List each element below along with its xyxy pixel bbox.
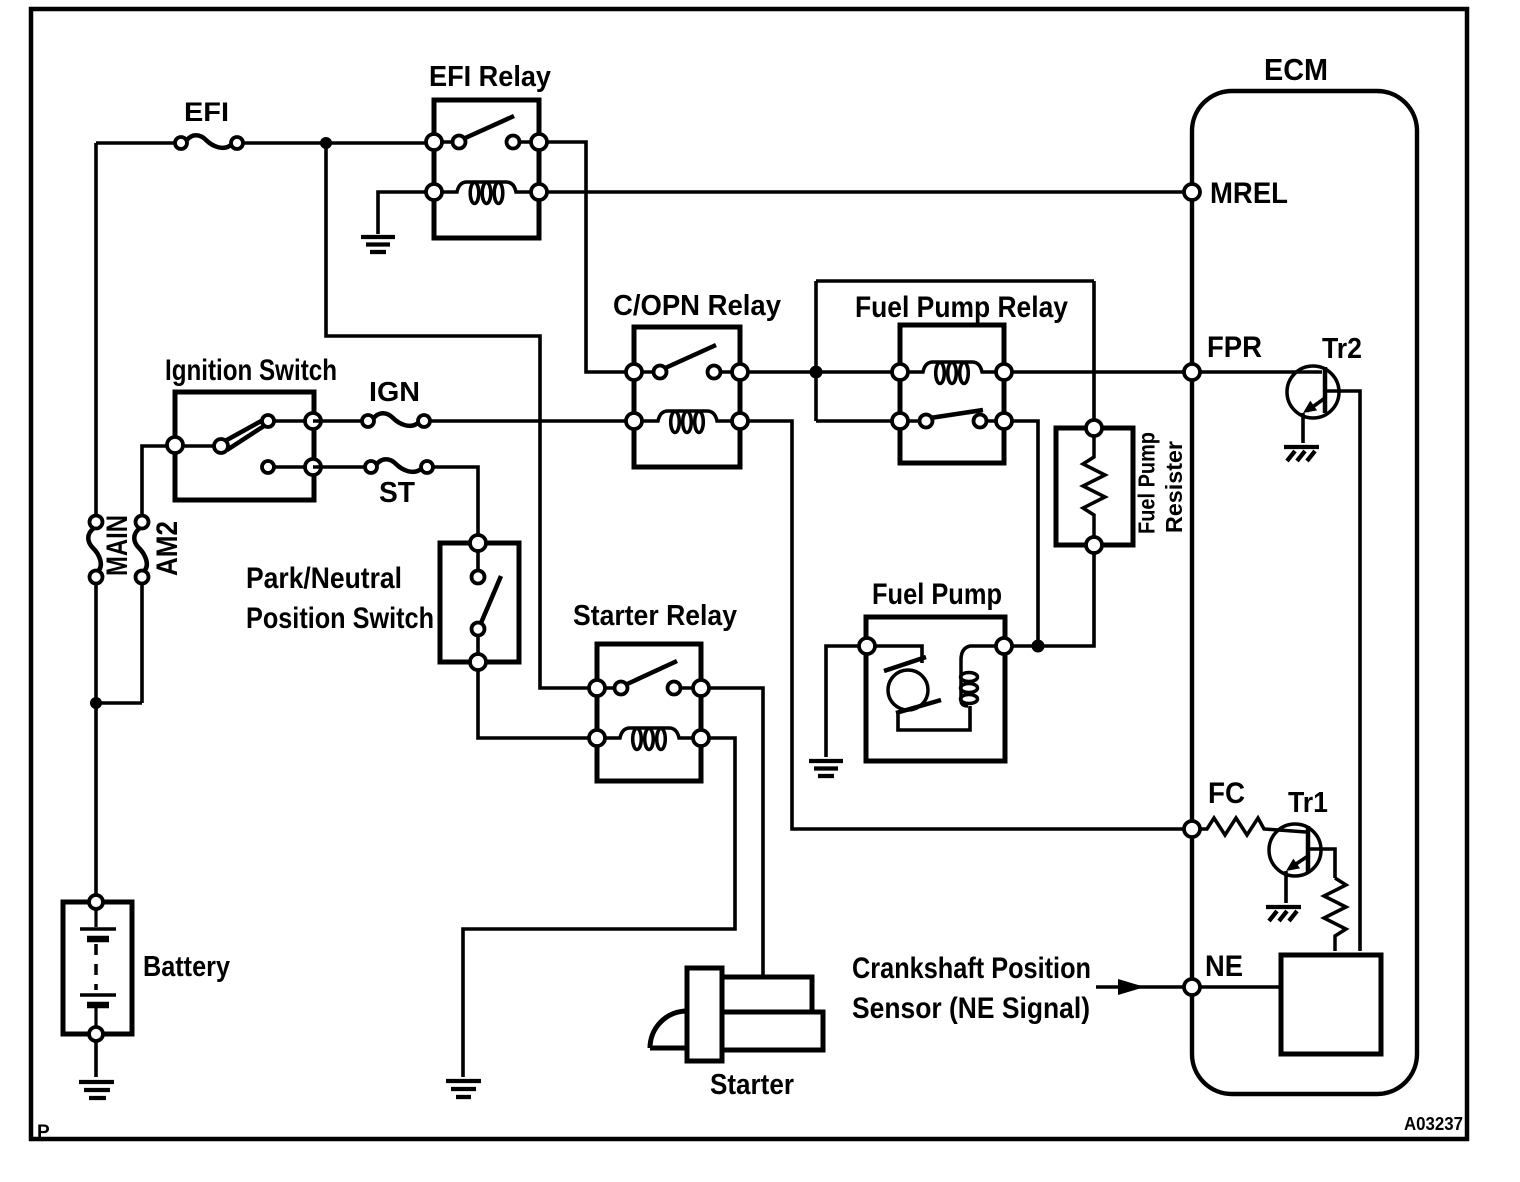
starter motor: [650, 968, 823, 1101]
svg-text:Resister: Resister: [1161, 441, 1187, 533]
ground: fuel pump: [809, 761, 843, 776]
resistor: Tr1 collector resistor: [1324, 878, 1346, 951]
wire: starter relay switch to starter: [709, 688, 763, 975]
svg-text:Starter Relay: Starter Relay: [573, 600, 737, 632]
fuse EFI: [175, 97, 243, 149]
fuse MAIN: [88, 515, 134, 584]
svg-text:EFI: EFI: [184, 97, 229, 127]
wire: MAIN fuse to battery junction: [96, 583, 142, 894]
label: crankshaft position sensor with arrow: [852, 952, 1184, 1025]
wire: IGN row to C/OPN relay coil: [313, 419, 626, 423]
relay: Fuel Pump Relay: [816, 281, 1094, 463]
svg-text:MREL: MREL: [1210, 177, 1288, 210]
wire: EFI relay switch output down to C/OPN relay: [547, 142, 626, 372]
wire: ST row to park/neutral switch: [313, 467, 478, 535]
fuel pump: [859, 578, 1012, 761]
pin NE: [1184, 950, 1243, 995]
svg-text:Tr1: Tr1: [1288, 787, 1328, 819]
svg-text:Ignition Switch: Ignition Switch: [165, 354, 337, 387]
ground: Tr2 emitter: [1284, 447, 1319, 461]
ground: EFI relay: [361, 237, 395, 252]
node: junction at EFI fuse output: [320, 137, 332, 149]
svg-text:IGN: IGN: [369, 376, 420, 407]
relay: Starter Relay: [573, 600, 737, 781]
pin FPR: [1184, 331, 1262, 380]
svg-text:AM2: AM2: [151, 521, 184, 576]
svg-text:FPR: FPR: [1207, 331, 1262, 364]
resistor: FC base resistor: [1200, 818, 1306, 835]
wire: C/OPN relay switch to fuel pump relay row (FPR): [748, 370, 1322, 374]
node: junction battery/MAIN/AM2: [90, 697, 102, 709]
svg-text:MAIN: MAIN: [101, 515, 134, 576]
transistor Tr2: [1287, 333, 1362, 951]
svg-text:Fuel Pump Relay: Fuel Pump Relay: [855, 291, 1068, 324]
svg-text:Tr2: Tr2: [1322, 333, 1362, 365]
svg-text:Starter: Starter: [710, 1069, 794, 1101]
svg-text:FC: FC: [1208, 777, 1245, 810]
NE signal block: [1281, 955, 1381, 1054]
transistor Tr1: [1269, 787, 1335, 903]
wire: C/OPN relay coil to ECM FC circuit: [748, 421, 1188, 829]
svg-text:Park/Neutral: Park/Neutral: [246, 562, 402, 595]
wire: EFI relay coil ground lead: [378, 192, 426, 234]
wire: fuel pump relay switch output down to fuel pump: [1012, 421, 1038, 646]
svg-text:ECM: ECM: [1264, 52, 1328, 87]
switch: Park/Neutral Position Switch: [246, 535, 519, 670]
fuse IGN: [362, 376, 430, 427]
svg-text:EFI Relay: EFI Relay: [429, 61, 551, 93]
node: junction at fuel pump relay box: [810, 366, 823, 379]
wire: resister bottom to junction: [1044, 553, 1094, 646]
resistor: Fuel Pump Resister: [1056, 420, 1187, 553]
ground: battery: [79, 1082, 114, 1098]
wire: B+ feed down to starter relay switch: [326, 143, 593, 688]
svg-text:Position Switch: Position Switch: [246, 602, 434, 635]
svg-text:Battery: Battery: [143, 951, 230, 983]
svg-text:Crankshaft Position: Crankshaft Position: [852, 952, 1091, 985]
wire: park/neutral switch to starter relay coil: [478, 670, 589, 738]
node: junction fuel pump / resister: [1032, 640, 1045, 653]
battery: [63, 895, 230, 1041]
pin FC: [1184, 777, 1245, 837]
wire: starter relay coil to ground: [463, 738, 735, 1077]
ECM: [1192, 52, 1417, 1094]
svg-text:Fuel Pump: Fuel Pump: [1134, 432, 1160, 534]
svg-text:A03237: A03237: [1404, 1113, 1463, 1134]
wire: EFI relay coil to ECM MREL: [547, 190, 1188, 194]
svg-text:NE: NE: [1205, 950, 1243, 983]
relay: EFI Relay: [426, 61, 551, 238]
switch: Ignition Switch: [165, 354, 337, 500]
ground: Tr1 emitter: [1266, 907, 1301, 921]
ground: starter relay coil: [446, 1081, 481, 1097]
wire: NE pin to signal block: [1200, 985, 1281, 989]
wire: battery positive feed to EFI fuse row: [96, 143, 430, 518]
fuse AM2: [134, 516, 184, 584]
relay: C/OPN Relay: [613, 290, 781, 467]
svg-text:Sensor (NE Signal): Sensor (NE Signal): [852, 992, 1090, 1025]
svg-text:P: P: [37, 1122, 50, 1143]
wire: AM2 feed to ignition switch: [142, 446, 167, 516]
svg-text:C/OPN Relay: C/OPN Relay: [613, 290, 781, 322]
svg-text:Fuel Pump: Fuel Pump: [872, 578, 1002, 611]
svg-text:ST: ST: [379, 477, 415, 509]
pin MREL: [1184, 177, 1288, 210]
wire: battery negative to ground: [94, 1041, 98, 1077]
fuse ST: [365, 459, 433, 509]
wire: fuel pump ground lead: [826, 646, 859, 757]
